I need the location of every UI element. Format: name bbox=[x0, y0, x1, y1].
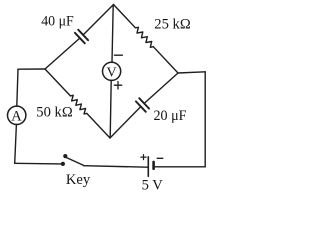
svg-text:5 V: 5 V bbox=[142, 178, 164, 194]
svg-text:Key: Key bbox=[66, 172, 91, 188]
svg-text:25 kΩ: 25 kΩ bbox=[154, 17, 191, 33]
svg-text:A: A bbox=[11, 108, 22, 124]
svg-text:50 kΩ: 50 kΩ bbox=[36, 104, 73, 120]
svg-text:20 μF: 20 μF bbox=[154, 108, 187, 124]
svg-text:40 μF: 40 μF bbox=[41, 14, 74, 30]
svg-text:V: V bbox=[107, 66, 117, 81]
